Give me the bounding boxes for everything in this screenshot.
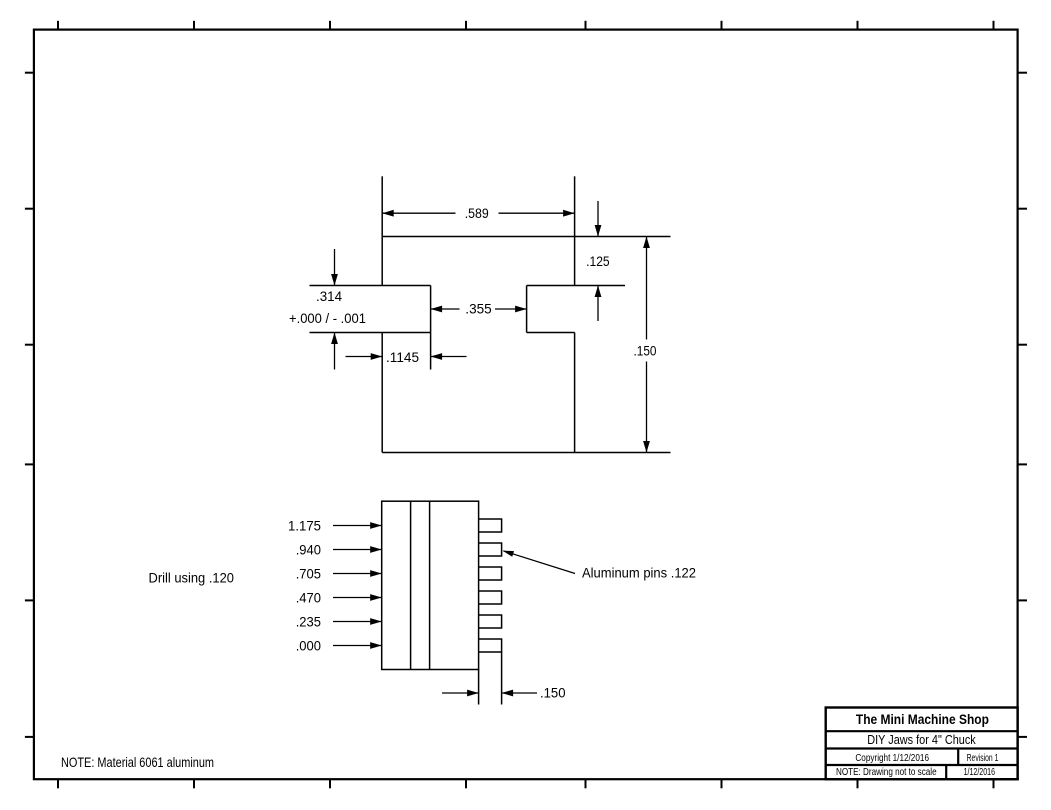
jaw profile: left edge lower segment [381,333,383,453]
dimension .125 upper line [597,201,599,237]
jaw profile: right edge upper segment (extension for .589) [574,176,576,285]
title block row line 1 [826,730,1018,732]
dimension .1145 line right [431,356,467,358]
dimension .1145 right arrow [431,353,443,360]
dimension .150 bottom line right [502,692,537,694]
jaw profile: bottom edge [382,452,670,454]
svg-text:1/12/2016: 1/12/2016 [964,766,996,778]
groove right edge + extension [430,286,432,370]
pin 3 [479,567,502,580]
pin 6 [479,639,502,652]
svg-text:Revision 1: Revision 1 [967,752,999,764]
dimension .589 left arrow [382,210,394,217]
jaw side inner line 1 [410,501,412,669]
jaw side view body [382,501,479,669]
dimension .314 upper line [334,249,336,286]
pin 5 [479,615,502,628]
notch bottom line [527,332,575,334]
dimension .355 line left [431,308,460,310]
title block divider row4 [945,765,947,779]
dimension .589 right arrow [563,210,575,217]
dimension .125 lower arrow [595,286,602,298]
svg-text:+.000 / - .001: +.000 / - .001 [289,310,366,326]
dimension .150 bottom arrow [643,441,650,453]
notch left edge [526,286,528,333]
svg-text:.150: .150 [540,685,566,701]
groove top line [310,285,431,287]
svg-text:.314: .314 [316,288,342,304]
pin column left edge extension [478,670,480,705]
dimension .150 bottom line left [442,692,479,694]
groove bottom line [310,332,431,334]
svg-text:NOTE: Material 6061 aluminum: NOTE: Material 6061 aluminum [61,754,214,770]
svg-text:.355: .355 [465,301,492,317]
title block row line 3 [826,764,1018,766]
svg-text:.150: .150 [634,342,657,358]
svg-text:.125: .125 [586,253,610,269]
svg-text:.589: .589 [465,205,489,221]
dimension .150 bottom left arrow [467,690,479,697]
svg-text:.705: .705 [296,566,321,582]
svg-text:NOTE: Drawing not to scale: NOTE: Drawing not to scale [836,766,937,778]
pin position arrow .470 [333,597,382,599]
dimension .314 lower line [334,333,336,370]
svg-text:.000: .000 [296,638,321,654]
pin position arrow 1.175 [333,525,382,527]
pin position arrow .705 [333,573,382,575]
pin column right edge extension [501,652,503,705]
svg-text:DIY Jaws for 4" Chuck: DIY Jaws for 4" Chuck [867,733,976,747]
dimension .314 lower arrow [331,333,338,345]
jaw profile: right edge lower segment [574,333,576,453]
pin 4 [479,591,502,604]
jaw profile: left edge upper segment [381,176,383,285]
pin 2 [479,543,502,556]
dimension .355 left arrow [431,306,443,313]
dimension .355 line right [495,308,527,310]
dimension .1145 left arrow [371,353,383,360]
dimension .125 upper arrow [595,225,602,237]
dimension .125 lower line [597,286,599,322]
pin 1 [479,519,502,532]
svg-text:The Mini Machine Shop: The Mini Machine Shop [856,711,989,727]
pin position arrow .000 [333,645,382,647]
jaw side inner line 2 [429,501,431,669]
dimension .150 top arrow [643,237,650,249]
border zone tick marks [57,21,59,30]
svg-text:1.175: 1.175 [288,518,321,534]
svg-text:.470: .470 [296,590,321,606]
notch top line [527,285,625,287]
leader arrowhead [503,551,514,557]
svg-text:.235: .235 [296,614,321,630]
title block outer box [826,708,1018,780]
dimension .355 right arrow [515,306,527,313]
dimension .150 line upper [646,237,648,340]
title block row line 2 [826,747,1018,749]
svg-text:Drill using .120: Drill using .120 [149,570,235,586]
dimension .150 line lower [646,362,648,453]
dimension .314 upper arrow [331,274,338,286]
title block divider row3 [957,749,959,766]
leader line to pin 2 [503,551,575,574]
svg-text:.940: .940 [296,542,321,558]
dimension .1145 line left [346,356,383,358]
svg-text:Copyright 1/12/2016: Copyright 1/12/2016 [855,752,929,764]
pin position arrow .235 [333,621,382,623]
pin position arrow .940 [333,549,382,551]
svg-text:Aluminum pins .122: Aluminum pins .122 [582,565,696,581]
dimension .589 line right [499,212,575,214]
dimension .150 bottom right arrow [502,690,513,697]
jaw profile: top edge [382,236,670,238]
svg-text:.1145: .1145 [386,349,419,365]
dimension .589 line left [382,212,455,214]
